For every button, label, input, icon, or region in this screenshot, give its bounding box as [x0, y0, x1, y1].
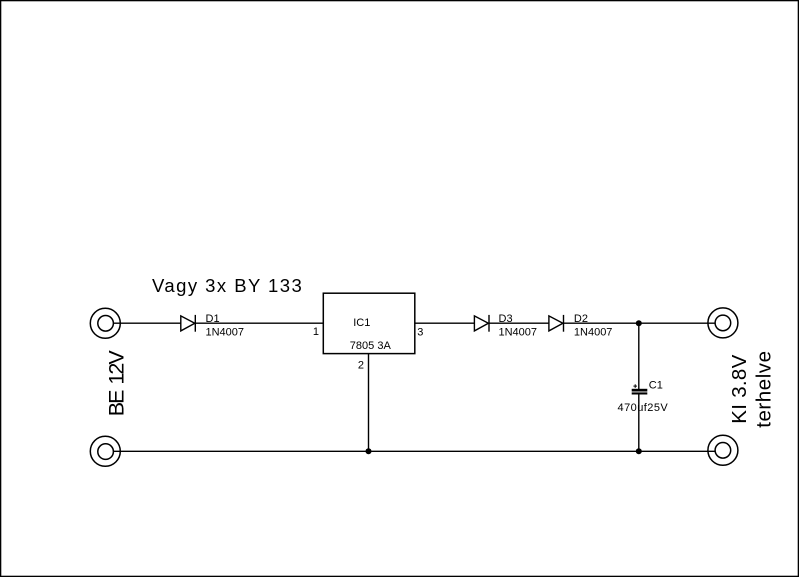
wire: D1 cathode to IC1 pin 1	[195, 322, 323, 324]
svg-text:470uf25V: 470uf25V	[618, 402, 669, 414]
diode D3	[474, 315, 489, 332]
terminal BE+ (top-left)	[90, 308, 120, 338]
svg-text:1N4007: 1N4007	[499, 327, 538, 339]
svg-text:1: 1	[313, 326, 319, 338]
terminal KI- (bottom-right)	[708, 435, 738, 465]
op-amp IC1 (7805 regulator box)	[323, 293, 415, 353]
svg-text:1N4007: 1N4007	[574, 327, 613, 339]
svg-text:KI 3.8V: KI 3.8V	[728, 354, 751, 423]
diode D1	[181, 315, 196, 332]
wire: D3 cathode to D2 anode	[489, 322, 549, 324]
svg-text:C1: C1	[649, 380, 663, 392]
diode D2	[549, 315, 564, 332]
junction: pin2 / bottom rail	[366, 448, 372, 454]
svg-text:1N4007: 1N4007	[206, 327, 245, 339]
wire: bottom rail	[113, 450, 715, 452]
wire: TL terminal to D1 anode	[113, 322, 181, 324]
wire: C1 to bottom rail	[638, 395, 640, 452]
capacitor C1 (polarized)	[632, 384, 648, 394]
junction: output node top	[636, 320, 642, 326]
terminal KI+ (top-right)	[708, 308, 738, 338]
wire: IC1 pin 3 to D3 anode	[415, 322, 475, 324]
svg-text:3: 3	[417, 327, 423, 339]
wire: D2 cathode to TR terminal	[564, 322, 716, 324]
svg-text:IC1: IC1	[353, 317, 370, 329]
junction: C1 / bottom rail	[636, 448, 642, 454]
wire: IC1 pin 2 down to bottom rail	[368, 354, 370, 452]
wire: node down to C1	[638, 323, 640, 389]
terminal BE- (bottom-left)	[90, 436, 120, 466]
svg-text:terhelve: terhelve	[752, 350, 775, 427]
svg-text:7805 3A: 7805 3A	[350, 340, 392, 352]
svg-text:BE 12V: BE 12V	[104, 350, 128, 417]
svg-text:Vagy 3x BY 133: Vagy 3x BY 133	[152, 275, 303, 296]
svg-text:2: 2	[358, 359, 364, 371]
